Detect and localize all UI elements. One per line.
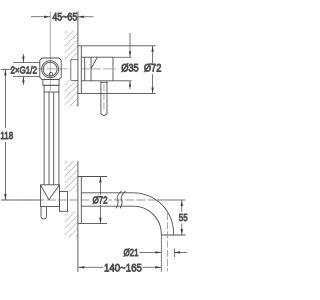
wall hatch upper (bottom view)	[65, 161, 78, 192]
svg-text:2×G1/2: 2×G1/2	[10, 64, 36, 75]
dimension text 45~65	[52, 12, 77, 24]
handle stem	[100, 81, 102, 114]
dimension text 118	[0, 130, 13, 141]
spout pipe bottom edge	[81, 205, 133, 207]
svg-text:45~65: 45~65	[52, 12, 77, 24]
cartridge neck through wall	[70, 60, 72, 81]
118 bottom extension	[1, 199, 41, 201]
dimension text O72 bottom	[92, 195, 107, 206]
supply pipe lines in wall	[43, 92, 45, 185]
spout bend inner arc	[133, 206, 161, 235]
elbow V funnel	[41, 185, 49, 200]
dimension 118	[1, 69, 12, 200]
valve body lower plate	[43, 80, 59, 86]
wall hatch lower (bottom view)	[65, 211, 78, 237]
sleeve ring	[84, 57, 86, 81]
valve cartridge screw circle	[49, 73, 53, 77]
spout axis centerline	[2, 199, 157, 201]
dimension 2xG1/2 extension lines	[13, 54, 40, 85]
dimension text O35	[121, 63, 139, 75]
svg-text:55: 55	[179, 212, 188, 223]
spout bend outer arc	[133, 193, 173, 235]
outlet centerline	[166, 213, 168, 272]
svg-text:Ø72: Ø72	[144, 63, 162, 75]
valve outlet stub	[44, 85, 59, 92]
valve body square	[40, 58, 61, 80]
handle stem cap	[101, 114, 107, 116]
cartridge sleeve top edge	[81, 56, 113, 58]
spout elbow block	[41, 185, 60, 207]
valve cartridge outer circle	[42, 61, 59, 78]
valve cartridge inner circle	[43, 62, 57, 76]
wall face line (top view)	[77, 12, 79, 107]
dimension O21	[140, 235, 188, 272]
sleeve joint	[90, 57, 92, 81]
spout flange	[78, 176, 107, 178]
drain stub	[40, 207, 42, 217]
wall hatch lower (top view, below valve)	[65, 80, 78, 106]
svg-text:140~165: 140~165	[104, 262, 142, 275]
spout outlet end	[161, 234, 185, 236]
elbow step block	[60, 192, 68, 212]
dimension text 55	[179, 212, 188, 223]
dimension text O21	[123, 247, 138, 258]
svg-text:Ø21: Ø21	[123, 247, 138, 258]
pipe break marks	[116, 191, 122, 209]
dimension text O72 top	[144, 63, 162, 75]
dimension O35 (top)	[113, 33, 132, 89]
label background 2xG1/2	[11, 64, 37, 75]
svg-text:118: 118	[0, 130, 13, 141]
valve horizontal axis centerline	[36, 68, 116, 70]
wall face line (bottom view)	[77, 161, 79, 272]
dimension O72 (bottom)	[99, 177, 101, 224]
dimension 55	[157, 200, 186, 235]
sleeve end cap	[112, 57, 114, 81]
trim flange (top view)	[78, 45, 156, 47]
dimension O72 (top)	[152, 46, 154, 94]
svg-text:Ø72: Ø72	[92, 195, 107, 206]
wall hatch upper (top view, above valve)	[65, 31, 78, 60]
valve vertical centerline	[49, 12, 51, 92]
dimension text 2xG1/2	[10, 64, 36, 75]
spout pipe top edge	[81, 192, 133, 194]
dimension 140~165	[78, 266, 161, 268]
dimension text 140~165	[104, 262, 142, 275]
drain stub cap	[41, 216, 47, 219]
svg-text:Ø35: Ø35	[121, 63, 139, 75]
lever diagonal	[91, 57, 97, 69]
cartridge sleeve bottom edge + ext	[81, 80, 131, 82]
dimension 45~65	[31, 16, 94, 18]
